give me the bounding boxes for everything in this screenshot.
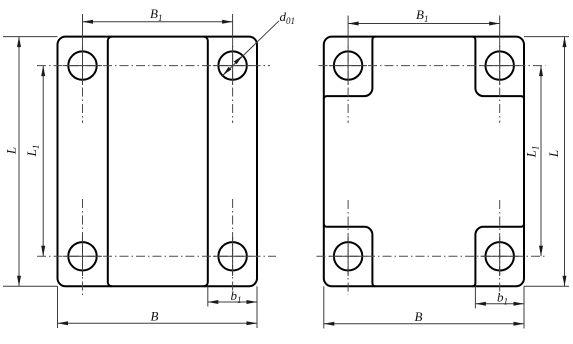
horizontal centerline bottom row (left view)	[37, 255, 276, 257]
hole bottom-right (right view)	[486, 242, 514, 270]
right rail inner edge	[204, 37, 208, 287]
hole top-right (left view)	[218, 51, 246, 79]
hole bottom-left (right view)	[334, 242, 362, 270]
dimension B1 (right view)	[348, 7, 500, 38]
crosshairs through holes (right view)	[329, 46, 519, 276]
dimension B (left view)	[58, 286, 258, 328]
horizontal centerline top row (right view)	[319, 65, 546, 67]
svg-text:L: L	[4, 147, 19, 155]
hole bottom-left (left view)	[68, 242, 96, 270]
hole bottom-right (left view)	[218, 242, 246, 270]
vertical centerline right pads (right view)	[499, 38, 501, 295]
left rail inner edge	[108, 37, 112, 287]
vertical centerline left pads (right view)	[347, 38, 349, 295]
svg-text:L: L	[546, 150, 561, 158]
dimension L1 (left view)	[24, 66, 45, 257]
dimension L (right view)	[524, 37, 569, 287]
plate outline left view	[58, 37, 258, 287]
hole top-left (left view)	[68, 51, 96, 79]
horizontal centerline bottom row (right view)	[317, 255, 546, 257]
dimension B (right view)	[324, 286, 524, 328]
svg-text:B: B	[415, 309, 423, 324]
dimension b1 (left view)	[208, 286, 257, 306]
vertical centerline right rail	[232, 38, 234, 296]
pad top-right (right view)	[472, 37, 524, 100]
crosshairs through holes (left view)	[63, 46, 252, 276]
dimension L (left view)	[3, 37, 58, 287]
svg-text:B: B	[151, 309, 159, 324]
pad bottom-left (right view)	[324, 224, 376, 286]
dimension B1 (left view)	[83, 6, 233, 38]
pad bottom-right (right view)	[472, 224, 524, 286]
hole top-right (right view)	[486, 51, 514, 79]
dimension d01 leader (left view)	[222, 9, 295, 76]
plate outline right view	[324, 37, 524, 287]
vertical centerline left rail	[82, 38, 84, 296]
dimension b1 (right view)	[475, 286, 524, 308]
horizontal centerline top row (left view)	[37, 65, 270, 67]
pad top-left (right view)	[324, 37, 376, 100]
dimension L1 (right view)	[524, 66, 544, 257]
hole top-left (right view)	[334, 51, 362, 79]
